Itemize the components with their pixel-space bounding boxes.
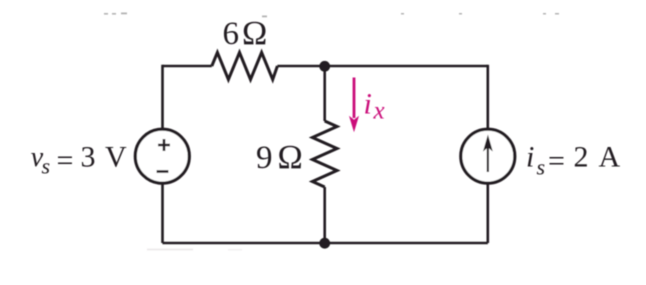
svg-text:6: 6 (223, 16, 240, 52)
wire: right vertical lower (486, 184, 489, 243)
svg-text:=: = (57, 144, 74, 177)
current source arrow shaft (487, 147, 489, 172)
node B dot (bottom middle junction) (319, 238, 330, 249)
svg-text:9: 9 (256, 140, 273, 176)
resistor R1 6 ohm (zigzag) (212, 53, 278, 80)
node A dot (top middle junction) (319, 61, 330, 72)
wire: middle vertical lower (323, 187, 326, 243)
svg-text:A: A (599, 141, 621, 174)
svg-text:s: s (537, 155, 546, 180)
wire: left vertical lower (161, 184, 164, 244)
resistor R2 9 ohm (zigzag) (312, 121, 337, 187)
current arrow ix head (magenta) (349, 116, 359, 133)
svg-text:=: = (548, 144, 565, 177)
current source I1 circle (461, 129, 515, 183)
wire: middle vertical upper (323, 66, 326, 121)
artifact marks top (cropped text remnants) (104, 13, 559, 251)
voltage source minus sign (157, 170, 169, 173)
wire: left vertical upper (161, 65, 164, 129)
svg-text:i: i (364, 88, 372, 121)
voltage source V1 circle (135, 129, 189, 183)
wire: top-right horizontal segment (277, 65, 487, 68)
wire: top-left horizontal segment (163, 65, 212, 68)
wire: right vertical upper (486, 65, 489, 129)
wire: bottom horizontal (163, 242, 488, 245)
current source arrowhead (483, 135, 493, 152)
svg-text:Ω: Ω (278, 139, 303, 176)
svg-text:x: x (373, 98, 385, 125)
svg-text:i: i (526, 141, 534, 174)
voltage source plus sign (158, 139, 170, 151)
svg-text:2: 2 (574, 141, 589, 174)
svg-text:V: V (105, 141, 127, 174)
svg-text:Ω: Ω (242, 15, 267, 52)
current arrow ix shaft (magenta) (353, 78, 356, 119)
svg-text:s: s (42, 154, 51, 179)
svg-text:3: 3 (81, 141, 96, 174)
